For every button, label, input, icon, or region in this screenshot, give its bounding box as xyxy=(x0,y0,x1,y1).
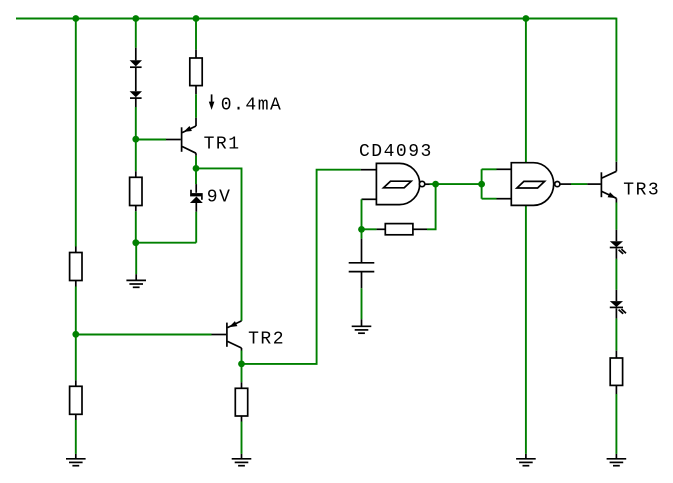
wire: U1b output to TR3 base xyxy=(571,183,601,185)
wire: node J down to R7 right lead xyxy=(413,184,436,229)
wire: TR1 collector to node H xyxy=(195,156,197,169)
svg-text:0.4mA: 0.4mA xyxy=(221,95,283,115)
wire: C1 to ground xyxy=(361,273,363,327)
node F: TR1 base node xyxy=(132,136,139,143)
capacitor C1 xyxy=(349,263,375,272)
current arrow 0.4mA xyxy=(209,94,215,110)
wire: CD4093 power rail drop to ground xyxy=(525,19,527,459)
wire: node B column from rail to D1 xyxy=(135,19,137,61)
ground: below node G xyxy=(126,280,146,287)
nand gate U1a (Schmitt) xyxy=(361,163,430,204)
svg-text:TR3: TR3 xyxy=(623,180,660,200)
wire: R5 to ground xyxy=(241,416,243,459)
wire: zener anode to node G wire xyxy=(195,212,197,243)
svg-text:CD4093: CD4093 xyxy=(359,142,433,162)
node H: TR1 collector junction xyxy=(193,165,200,172)
wire: R7 left lead to node L xyxy=(362,228,386,230)
wire: D1 to D2 xyxy=(135,66,137,91)
wire: D2 to node F xyxy=(135,97,137,139)
node: rail junction A (x=75.8) xyxy=(72,15,79,22)
node E: left divider junction xyxy=(72,331,79,338)
wire: R1 to TR1 emitter xyxy=(195,86,197,126)
wire: node F to TR1 base xyxy=(136,139,181,141)
wire: node C column from rail to R1 xyxy=(195,19,197,59)
node J: U1a output junction xyxy=(432,181,439,188)
nand gate U1b (Schmitt) xyxy=(497,163,572,206)
wire: top supply rail xyxy=(16,18,616,20)
wire: node K to U1b inputs xyxy=(482,169,497,198)
ground: below C1 xyxy=(352,326,372,333)
wire: left column from rail to R3 xyxy=(75,19,77,253)
svg-text:TR1: TR1 xyxy=(204,134,241,154)
wire: R2 to node G xyxy=(135,206,137,243)
zener diode D3 (9V) xyxy=(190,190,203,212)
wire: LED1 to LED2 xyxy=(615,248,617,301)
node: rail junction C (x=196) xyxy=(193,15,200,22)
wire: LED2 to R6 xyxy=(615,308,617,358)
transistor TR1 (PNP) xyxy=(182,126,196,156)
wire: U1a input2 riser xyxy=(361,199,363,229)
wire: U1a output to node J xyxy=(430,183,436,185)
node K: U1b input junction xyxy=(478,181,485,188)
resistor R6 xyxy=(610,358,622,385)
wire: node E to TR2 base xyxy=(76,334,226,336)
transistor TR3 (NPN) xyxy=(601,162,616,203)
wire: node H down to zener xyxy=(195,168,197,192)
wire: right supply drop to TR3 collector xyxy=(615,18,617,162)
wire: node I right and up to gate1 input 1 xyxy=(242,170,361,364)
wire: R3 to node E xyxy=(75,281,77,335)
node G: R2 bottom junction xyxy=(132,239,139,246)
wire: TR2 collector to node I xyxy=(241,351,243,364)
node: rail junction B (x=135.8) xyxy=(132,15,139,22)
diode D1 xyxy=(130,60,142,67)
diode D2 xyxy=(130,91,142,98)
ground: below R4 xyxy=(66,459,86,466)
transistor TR2 (PNP) xyxy=(227,321,242,351)
wire: node H right and down to TR2 emitter xyxy=(196,168,242,321)
wire: TR3 emitter down to LED1 xyxy=(615,203,617,242)
resistor R3 xyxy=(70,253,82,281)
wire: node F down to R2 xyxy=(135,139,137,177)
wire: node G right to zener anode xyxy=(136,242,196,244)
resistor R5 xyxy=(235,388,247,416)
wire: node I down to R5 xyxy=(241,364,243,388)
resistor R1 xyxy=(190,58,202,86)
resistor R2 xyxy=(130,177,142,205)
svg-text:TR2: TR2 xyxy=(248,329,285,349)
wire: node L down to C1 xyxy=(361,229,363,262)
ground: below R6 xyxy=(607,459,627,466)
node L: timing node xyxy=(358,226,365,233)
ground: below R5 xyxy=(232,459,252,466)
wire: node E down to R4 xyxy=(75,334,77,386)
LED D5 xyxy=(610,301,626,314)
wire: R6 to ground xyxy=(615,385,617,458)
wire: node J to node K xyxy=(436,183,482,185)
node: rail junction D (x=525.9) xyxy=(523,15,530,22)
LED D4 xyxy=(610,241,626,254)
wire: node G to upper ground xyxy=(135,243,137,281)
node I: TR2 collector junction xyxy=(238,361,245,368)
ground: power rail bottom xyxy=(516,459,536,466)
svg-text:9V: 9V xyxy=(207,188,232,208)
wire: R4 to ground xyxy=(75,414,77,459)
resistor R7 (feedback) xyxy=(385,224,413,235)
resistor R4 xyxy=(70,386,82,414)
